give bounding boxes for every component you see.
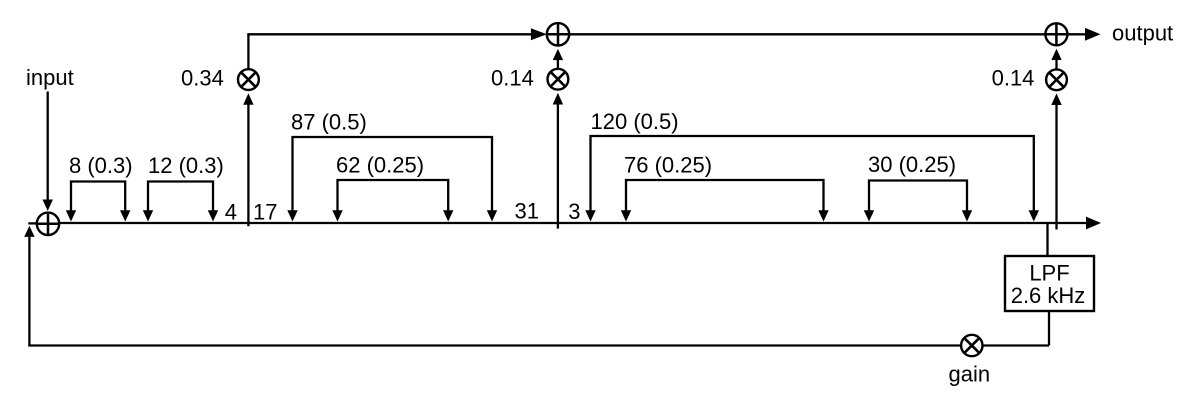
wire feedback up arrowhead into S1 stub bbox=[24, 226, 34, 237]
label 0.14 (middle) bbox=[491, 66, 534, 91]
wire feedback stub into S1 bbox=[28, 222, 38, 224]
wire M2 up into S2 bbox=[553, 49, 563, 69]
tap bracket 87 (0.5) bbox=[287, 110, 497, 222]
svg-text:2.6 kHz: 2.6 kHz bbox=[1011, 283, 1086, 308]
multiplier M4 gain bbox=[961, 335, 982, 356]
wire tap up to multiplier M2 bbox=[553, 93, 563, 229]
node label 31 bbox=[515, 199, 539, 224]
svg-text:12 (0.3): 12 (0.3) bbox=[148, 153, 224, 178]
node label 17 bbox=[253, 200, 277, 225]
tap bracket 62 (0.25) bbox=[332, 153, 453, 222]
svg-text:4: 4 bbox=[225, 200, 237, 225]
tap bracket 8 (0.3) bbox=[66, 153, 133, 222]
svg-text:input: input bbox=[26, 65, 74, 90]
wire main delay line bbox=[59, 217, 1101, 230]
svg-text:120 (0.5): 120 (0.5) bbox=[591, 109, 679, 134]
tap bracket 76 (0.25) bbox=[621, 153, 829, 222]
node label 4 bbox=[225, 200, 237, 225]
wire main line into LPF bbox=[1046, 224, 1048, 256]
wire output arrow bbox=[1067, 28, 1100, 41]
tap bracket 30 (0.25) bbox=[864, 152, 972, 222]
tap bracket 120 (0.5) bbox=[585, 109, 1039, 222]
label 0.34 bbox=[181, 66, 224, 91]
svg-text:8 (0.3): 8 (0.3) bbox=[69, 153, 133, 178]
wire tap up to multiplier M3 bbox=[1051, 93, 1061, 229]
wire S2 to S3 bbox=[569, 33, 1045, 35]
LPF box bbox=[1005, 256, 1094, 311]
svg-text:0.34: 0.34 bbox=[181, 66, 224, 91]
svg-text:17: 17 bbox=[253, 200, 277, 225]
label 0.14 (right) bbox=[992, 66, 1035, 91]
wire M1 up and right into summer S2 bbox=[248, 28, 546, 69]
label input bbox=[26, 65, 74, 90]
node label 3 bbox=[568, 199, 580, 224]
svg-text:62 (0.25): 62 (0.25) bbox=[336, 153, 424, 178]
multiplier M1 0.34 bbox=[238, 69, 259, 90]
wire tap up to multiplier M1 bbox=[243, 93, 253, 226]
svg-text:gain: gain bbox=[949, 362, 991, 387]
tap bracket 12 (0.3) bbox=[143, 153, 224, 222]
multiplier M2 0.14 bbox=[548, 69, 569, 90]
wire feedback bottom line bbox=[29, 237, 1049, 346]
svg-text:LPF: LPF bbox=[1029, 261, 1069, 286]
svg-text:76 (0.25): 76 (0.25) bbox=[624, 153, 712, 178]
multiplier M3 0.14 bbox=[1046, 69, 1067, 90]
summer S2 bbox=[547, 23, 569, 45]
svg-text:87 (0.5): 87 (0.5) bbox=[291, 110, 367, 135]
svg-text:output: output bbox=[1112, 20, 1173, 45]
label output bbox=[1112, 20, 1173, 45]
wire M3 up into S3 bbox=[1051, 49, 1061, 70]
svg-text:31: 31 bbox=[515, 199, 539, 224]
svg-text:3: 3 bbox=[568, 199, 580, 224]
wire LPF output down bbox=[1048, 311, 1050, 346]
wire input arrow into summer S1 bbox=[43, 92, 53, 212]
summer S3 bbox=[1045, 23, 1067, 45]
svg-text:0.14: 0.14 bbox=[992, 66, 1035, 91]
summer S1 bbox=[37, 213, 59, 235]
label gain bbox=[949, 362, 991, 387]
svg-text:30 (0.25): 30 (0.25) bbox=[868, 152, 956, 177]
svg-text:0.14: 0.14 bbox=[491, 66, 534, 91]
